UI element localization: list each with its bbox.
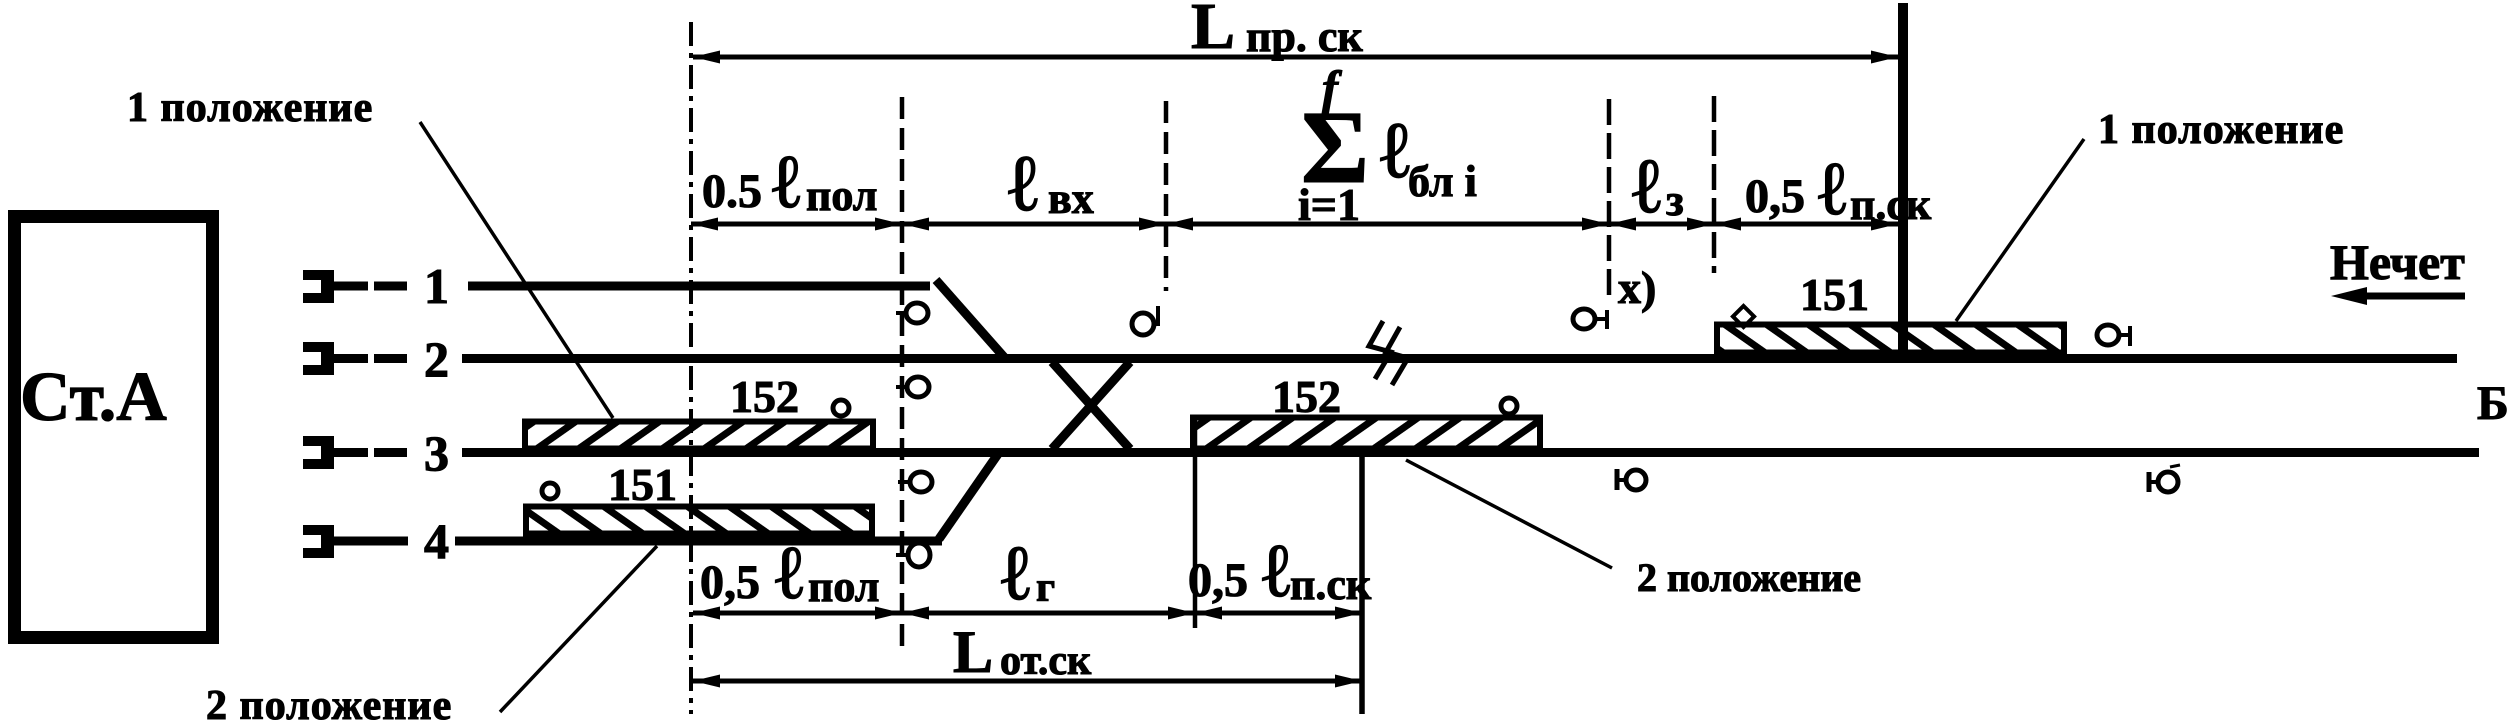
svg-text:г: г (1036, 565, 1055, 611)
svg-text:2: 2 (424, 331, 449, 387)
svg-text:2 положение: 2 положение (1637, 555, 1861, 600)
joint circle below track 4 on line 902 (896, 543, 930, 567)
leader line 1 right (1956, 139, 2084, 321)
svg-text:п.ск: п.ск (1850, 180, 1932, 229)
hatched box 152 left (525, 422, 873, 449)
svg-text:пол: пол (808, 562, 879, 611)
svg-text:ℓ: ℓ (775, 531, 804, 615)
station box Ст.А (15, 217, 213, 638)
hatched box 151 left (526, 507, 872, 534)
svg-text:ℓ: ℓ (1262, 529, 1291, 613)
svg-text:пол: пол (806, 171, 877, 220)
svg-text:1 положение: 1 положение (127, 85, 373, 131)
joint symbol on at 2110 above track 2 (2097, 325, 2131, 346)
svg-text:ℓ: ℓ (1001, 529, 1030, 616)
dimension line chain (second row) (691, 222, 1898, 227)
svg-text:2 положение: 2 положение (206, 683, 452, 724)
svg-text:п.ск: п.ск (1290, 560, 1372, 609)
crossover X between track 2 and 3 (1052, 362, 1130, 449)
svg-text:0.5: 0.5 (702, 165, 762, 218)
svg-text:1: 1 (424, 258, 449, 314)
leader line 2 right (1406, 460, 1612, 568)
svg-text:152: 152 (1272, 371, 1341, 422)
track 3 stub dashes (334, 448, 368, 457)
svg-text:вх: вх (1048, 174, 1094, 223)
svg-text:L: L (1191, 0, 1235, 63)
vertical dashed reference line at 1609 (1607, 99, 1612, 302)
svg-text:Б: Б (2477, 377, 2509, 430)
track 1 rail (468, 282, 930, 291)
track 1 stub dashes (334, 282, 368, 291)
track 4 stub (303, 525, 334, 558)
track break symbol on track 2 (1369, 321, 1391, 379)
track 1 stub (303, 270, 334, 303)
joint circle below track 3 on line 902 (898, 472, 932, 492)
track 4 turnout diagonal to track 3 (939, 454, 998, 539)
track 2 stub dashes (334, 354, 368, 363)
svg-text:ℓ: ℓ (1008, 140, 1038, 228)
track 2 stub (303, 342, 334, 375)
track 2 rail (462, 354, 2457, 363)
hatched box 152 middle (1193, 418, 1540, 449)
svg-text:4: 4 (424, 513, 449, 569)
track 4 rail (455, 537, 942, 546)
track 4 stub dash (334, 537, 408, 546)
vertical solid reference line at 1195 (1193, 417, 1198, 628)
vertical dashed reference line at 1714 (1712, 96, 1717, 273)
vertical dashed reference line at 902 (900, 97, 905, 652)
svg-text:ℓ: ℓ (1818, 147, 1847, 231)
leader line 1 left (420, 122, 613, 418)
svg-text:х): х) (1618, 262, 1656, 313)
joint circle at 151 left box (542, 483, 558, 499)
svg-text:ℓ: ℓ (772, 140, 801, 224)
joint diamond at 151 right box (1733, 306, 1754, 327)
joint circle below track 2 on line 902 (896, 377, 929, 397)
svg-text:151: 151 (1800, 269, 1869, 320)
svg-text:0,5: 0,5 (1188, 554, 1248, 607)
svg-text:151: 151 (608, 459, 677, 510)
dimension line L ot.sk (693, 679, 1362, 684)
bottom dimension chain (693, 611, 1362, 616)
svg-text:бл i: бл i (1408, 157, 1477, 206)
svg-text:Ст.А: Ст.А (20, 359, 167, 436)
svg-text:от.ск: от.ск (1000, 638, 1092, 684)
dimension line L pr.sk (top) (693, 55, 1898, 60)
track 3 stub (303, 436, 334, 469)
svg-text:i=1: i=1 (1298, 179, 1360, 230)
joint circle at 152 left box (833, 400, 849, 416)
joint symbol och at 1150 above track 2 (1132, 306, 1158, 335)
joint symbol yu at 2160 below track 3 (2149, 465, 2180, 492)
svg-text:3: 3 (424, 425, 449, 481)
svg-text:ℓ: ℓ (1632, 142, 1661, 229)
vertical solid reference line at 1362 (1359, 449, 1365, 714)
svg-text:0,5: 0,5 (1745, 170, 1805, 223)
hatched box 151 right (1717, 325, 2064, 353)
joint symbol yu at 1625 below track 3 (1617, 469, 1646, 490)
svg-text:пр. ск: пр. ск (1246, 12, 1363, 61)
svg-text:1 положение: 1 положение (2098, 107, 2344, 153)
vertical dashed reference line at 1166 (1164, 101, 1169, 291)
vertical dash-dot reference line at 691 (689, 22, 693, 714)
joint symbol on at 1590 above track 2 (1573, 309, 1608, 329)
leader line 2 left (500, 546, 657, 712)
svg-text:ℓ: ℓ (1380, 107, 1410, 195)
vertical solid reference line at 1903 (1898, 3, 1908, 360)
joint circle at 152 middle box (1501, 398, 1517, 414)
arrow Nechet (2345, 293, 2465, 300)
svg-text:0,5: 0,5 (700, 556, 760, 609)
svg-text:з: з (1666, 176, 1684, 225)
svg-text:Нечет: Нечет (2330, 234, 2465, 290)
svg-text:152: 152 (730, 371, 799, 422)
joint circle below track 1 on line 902 (896, 303, 928, 323)
svg-text:L: L (953, 619, 993, 685)
track 1 turnout diagonal to track 2 (936, 280, 1004, 357)
track 3 rail (462, 448, 2479, 457)
